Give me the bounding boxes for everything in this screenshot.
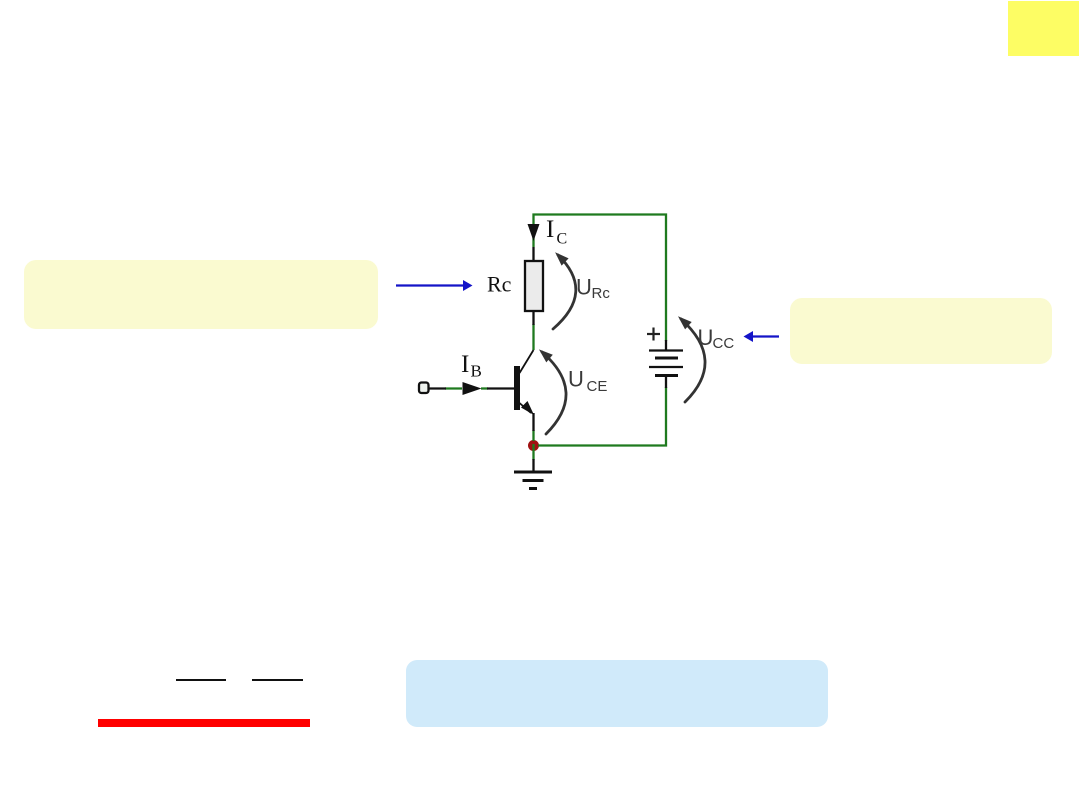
- svg-text:CC: CC: [713, 335, 735, 352]
- label U_Rc: [576, 275, 610, 303]
- current arrow Ib: [463, 382, 482, 395]
- wire: ground stub: [532, 459, 534, 471]
- label Ic: [546, 216, 567, 248]
- label U_CC: [698, 325, 735, 352]
- voltage arrow U_Rc: [553, 252, 576, 329]
- wire: battery bottom stub: [665, 375, 667, 388]
- battery Ucc: [649, 351, 683, 376]
- wire: base green segments: [445, 387, 462, 389]
- svg-text:CE: CE: [587, 378, 608, 395]
- wire: battery top stub: [665, 340, 667, 350]
- transistor Q1 (NPN): [514, 350, 534, 415]
- red underline: [98, 719, 310, 727]
- left callout box: [24, 260, 378, 329]
- yellow corner box: [1008, 1, 1079, 56]
- ground: [514, 472, 552, 489]
- current arrow Ic: [528, 224, 540, 241]
- battery plus sign: [647, 328, 660, 341]
- voltage arrow U_CC: [678, 316, 705, 402]
- svg-text:C: C: [557, 231, 568, 248]
- svg-text:Rc: Rc: [592, 285, 611, 302]
- wire: emitter to junction: [532, 430, 534, 441]
- svg-text:U: U: [698, 325, 714, 350]
- blue pointer arrow to Rc: [396, 280, 473, 291]
- wire: top loop (collector rail to battery): [534, 215, 667, 342]
- wire: base black segments: [428, 387, 446, 389]
- svg-text:U: U: [576, 275, 592, 300]
- wire: junction to ground: [532, 444, 534, 460]
- fraction bar 1: [176, 679, 226, 681]
- svg-text:B: B: [471, 362, 482, 381]
- wire: emitter vertical black: [532, 413, 534, 431]
- svg-text:I: I: [546, 216, 554, 243]
- voltage arrow U_CE: [539, 349, 566, 434]
- input terminal: [419, 383, 429, 394]
- label Ib: [461, 351, 482, 381]
- svg-text:Rc: Rc: [487, 272, 512, 297]
- wire: black stub below resistor: [532, 310, 534, 325]
- blue pointer arrow to Ucc: [744, 331, 780, 342]
- node: emitter junction dot: [528, 440, 539, 451]
- label U_CE: [568, 367, 607, 396]
- fraction bar 2: [252, 679, 303, 681]
- svg-text:U: U: [568, 367, 584, 392]
- resistor Rc: [525, 261, 543, 311]
- right callout box: [790, 298, 1052, 364]
- wire: battery bottom to junction: [538, 387, 666, 446]
- wire: resistor bottom to collector: [532, 324, 534, 350]
- wire: black stub above resistor: [532, 247, 534, 262]
- blue callout box: [406, 660, 828, 727]
- svg-text:I: I: [461, 351, 469, 378]
